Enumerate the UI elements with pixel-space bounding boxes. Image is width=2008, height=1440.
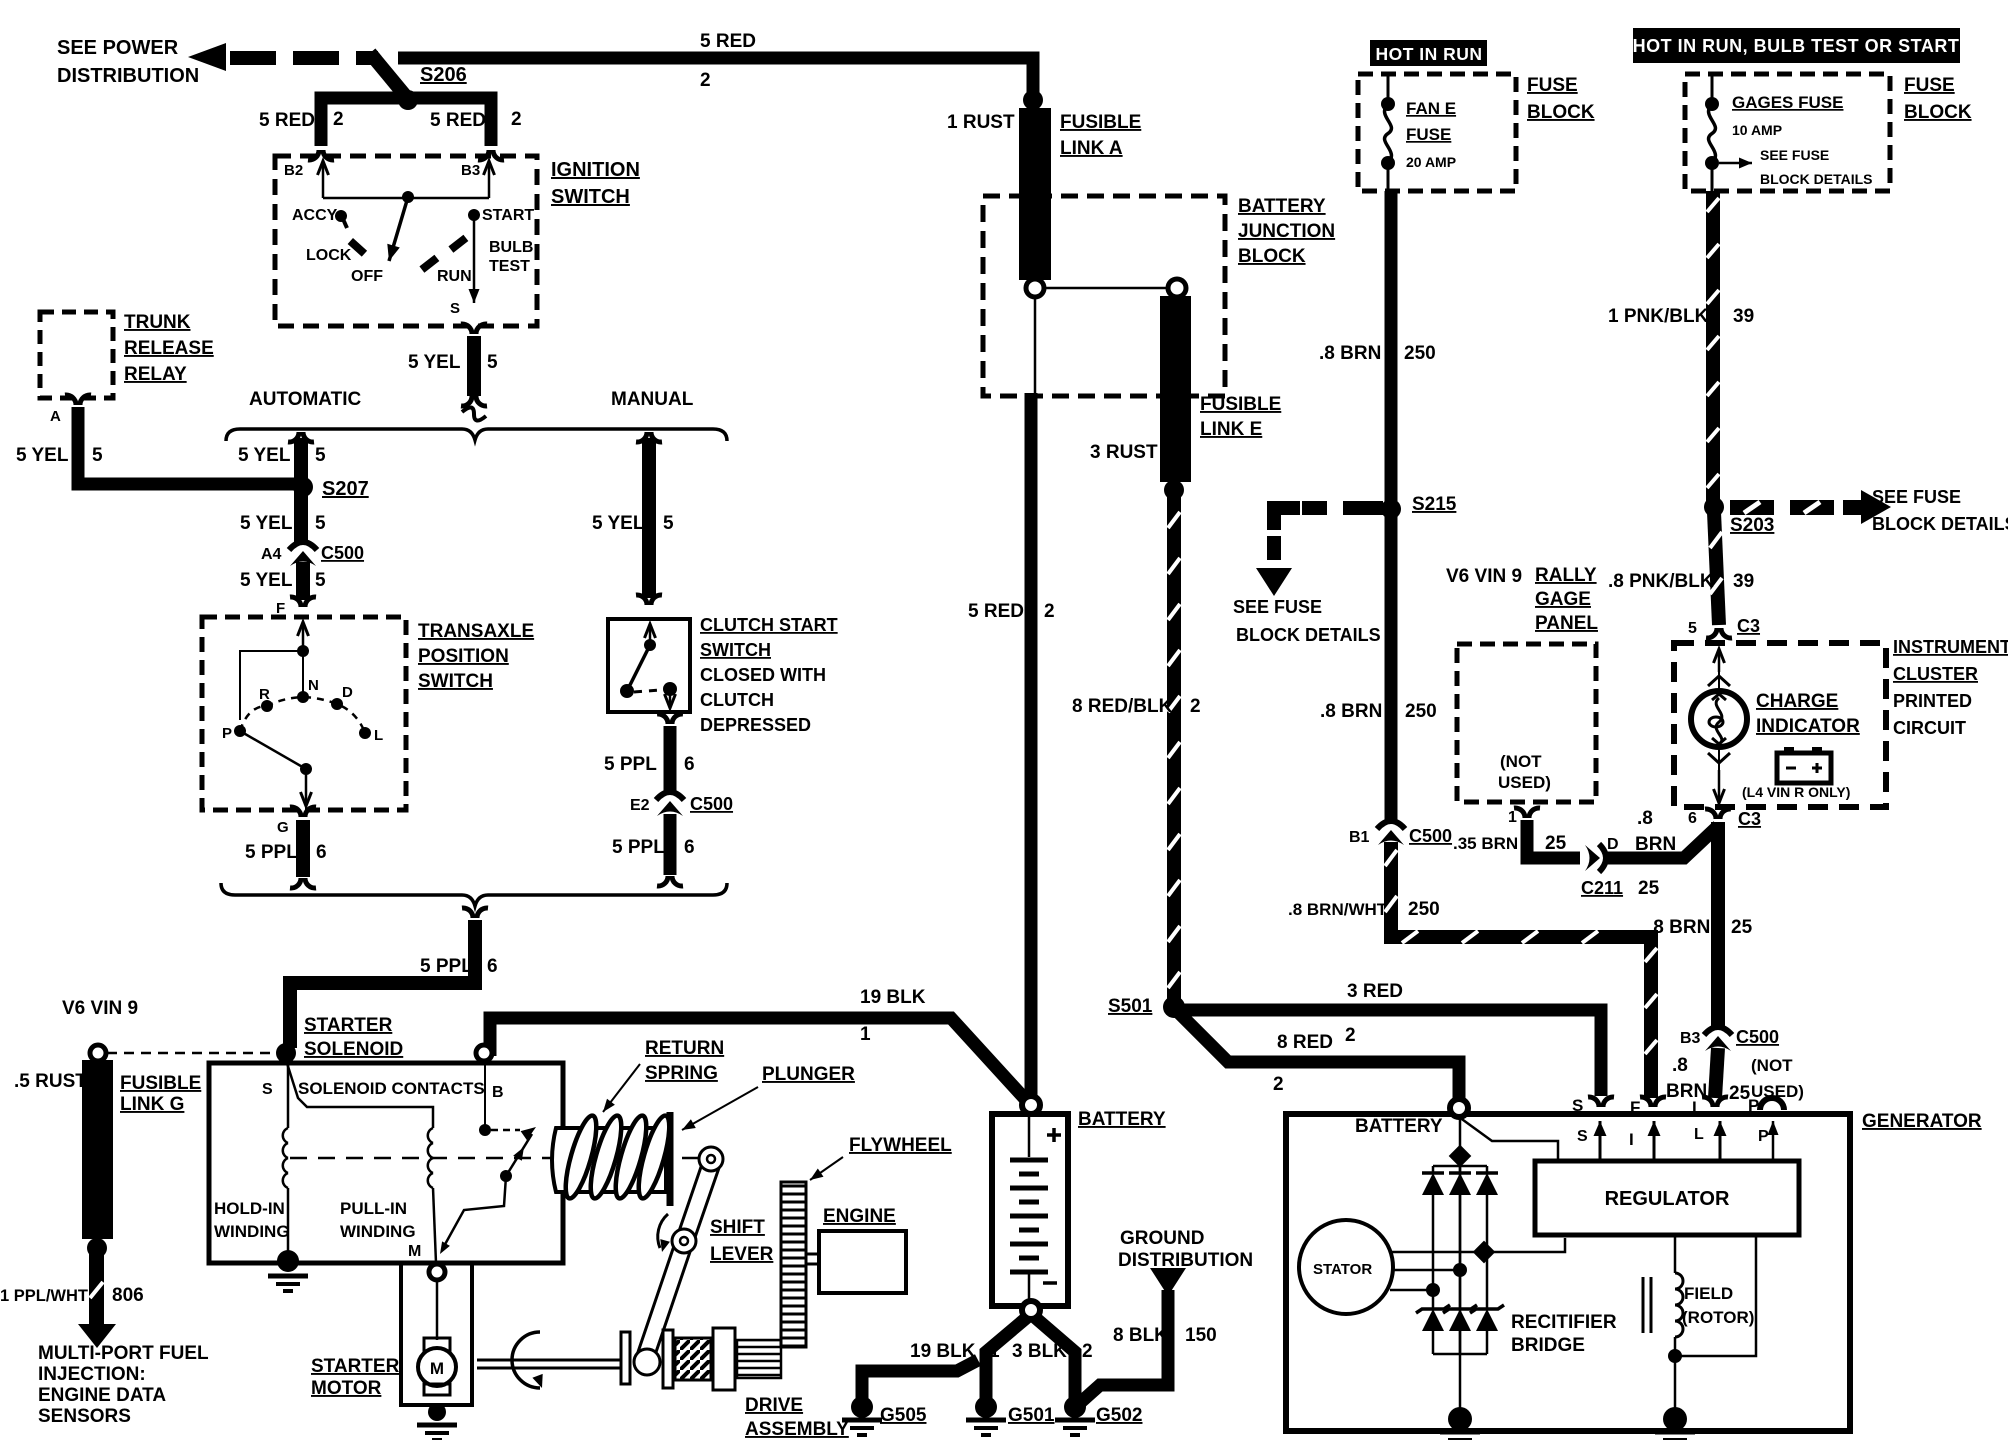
wire 5 RED top run to fusible link A (398, 58, 1033, 104)
break squiggle above brace (462, 407, 486, 420)
svg-text:GAGE: GAGE (1535, 589, 1591, 610)
banner HOT IN RUN (1370, 40, 1487, 66)
contact START (468, 209, 480, 221)
svg-text:BULB: BULB (489, 239, 533, 256)
wire 5 RED goalpost right to B3 (408, 98, 491, 146)
ground distribution feed arrow (1150, 1268, 1186, 1296)
wire 5 PPL below E2 (664, 814, 677, 875)
wire ground strap to G505 (862, 1360, 978, 1398)
svg-text:3 BLK: 3 BLK (1012, 1341, 1067, 1362)
ground G501 (975, 1396, 997, 1418)
ground generator field (1663, 1407, 1687, 1431)
svg-text:.8: .8 (1672, 1055, 1688, 1076)
svg-text:BRN: BRN (1635, 834, 1676, 855)
svg-text:BRIDGE: BRIDGE (1511, 1335, 1585, 1356)
wire .8 BRN pin6 to C500 B3 (1711, 822, 1725, 1026)
svg-text:PRINTED: PRINTED (1893, 691, 1972, 711)
svg-text:2: 2 (1345, 1025, 1356, 1046)
svg-text:HOT IN RUN, BULB TEST OR START: HOT IN RUN, BULB TEST OR START (1633, 36, 1960, 56)
svg-text:6: 6 (487, 956, 498, 977)
svg-text:START: START (482, 207, 534, 224)
svg-text:ENGINE: ENGINE (823, 1206, 896, 1227)
svg-text:SENSORS: SENSORS (38, 1406, 131, 1427)
svg-text:FUSIBLE: FUSIBLE (1200, 394, 1281, 415)
clutch output arrow (669, 694, 672, 708)
field rotor core bars (1643, 1277, 1651, 1333)
terminal fork manual branch top (636, 432, 647, 442)
svg-text:CHARGE: CHARGE (1756, 691, 1838, 712)
splice S203 (1704, 497, 1724, 517)
svg-text:S203: S203 (1730, 515, 1774, 536)
svg-text:STARTER: STARTER (311, 1356, 400, 1377)
svg-text:G501: G501 (1008, 1405, 1055, 1426)
contact R (261, 700, 273, 712)
svg-text:S: S (1572, 1096, 1583, 1115)
node fusible link E bottom (1164, 480, 1184, 500)
svg-text:B3: B3 (1680, 1030, 1701, 1047)
wire .8 BRN S215 to C500 B1 (1385, 512, 1398, 820)
svg-text:5: 5 (315, 570, 326, 591)
plunger end plate (667, 1112, 674, 1206)
svg-text:5 PPL: 5 PPL (420, 956, 473, 977)
field bottom node (1668, 1349, 1682, 1363)
svg-text:WINDING: WINDING (340, 1222, 416, 1241)
svg-text:LINK E: LINK E (1200, 419, 1262, 440)
svg-text:5: 5 (92, 445, 103, 466)
arrow to power distribution (dashed feed) (188, 43, 226, 71)
svg-text:20 AMP: 20 AMP (1406, 154, 1456, 170)
svg-text:BLOCK DETAILS: BLOCK DETAILS (1236, 625, 1381, 645)
svg-text:150: 150 (1185, 1325, 1217, 1346)
svg-text:(ROTOR): (ROTOR) (1682, 1308, 1754, 1327)
svg-text:G505: G505 (880, 1405, 927, 1426)
clutch fixed contact (644, 639, 656, 651)
fuse FAN E 20A (1387, 76, 1390, 104)
rectifier bottom bus (1433, 1353, 1487, 1356)
svg-text:BATTERY: BATTERY (1078, 1109, 1166, 1130)
svg-text:25: 25 (1545, 833, 1567, 854)
svg-text:SWITCH: SWITCH (551, 186, 630, 208)
clutch blade end (620, 684, 634, 698)
terminal fusible link E top (1168, 279, 1186, 297)
svg-text:2: 2 (1273, 1074, 1284, 1095)
svg-text:FAN E: FAN E (1406, 99, 1456, 118)
regulator box (1535, 1161, 1799, 1235)
svg-text:V6 VIN 9: V6 VIN 9 (1446, 566, 1522, 587)
contact ACCY (335, 210, 347, 222)
cluster entry arrow pin5 (1718, 649, 1721, 672)
terminal battery negative (1022, 1301, 1040, 1319)
svg-text:CLUTCH START: CLUTCH START (700, 615, 838, 635)
svg-text:SEE FUSE: SEE FUSE (1872, 487, 1961, 507)
flywheel pointer (810, 1157, 843, 1180)
svg-text:5 YEL: 5 YEL (408, 352, 461, 373)
terminal fork clutch exit (657, 714, 668, 724)
contact P (234, 725, 246, 737)
svg-text:5 PPL: 5 PPL (245, 842, 298, 863)
solenoid internal ground (277, 1250, 299, 1272)
shift lever arm (638, 1164, 720, 1358)
svg-text:5: 5 (315, 513, 326, 534)
fusible link G body (82, 1060, 113, 1239)
svg-text:LOCK: LOCK (306, 247, 352, 264)
svg-text:MOTOR: MOTOR (311, 1378, 382, 1399)
wire 1 PPL/WHT arrow to MFI (striped) (89, 1252, 104, 1326)
wire .35 BRN rally to C211 (1527, 820, 1580, 858)
charge indicator chevron top (1708, 676, 1730, 686)
svg-text:RALLY: RALLY (1535, 565, 1597, 586)
svg-text:CLUSTER: CLUSTER (1893, 664, 1978, 684)
charge indicator lamp (1691, 691, 1747, 747)
wire 8 RED S501 to generator BAT (1177, 1011, 1459, 1098)
starter solenoid box (209, 1063, 563, 1263)
svg-text:250: 250 (1404, 343, 1436, 364)
svg-text:5 RED: 5 RED (700, 31, 756, 52)
rally gage panel box (1457, 644, 1596, 802)
terminal fork generator L (1702, 1097, 1713, 1107)
terminal fork brace output (462, 908, 473, 918)
svg-text:S: S (1577, 1128, 1588, 1145)
motor feed line (436, 1280, 439, 1340)
dashed wire S215 to see-fuse arrow (1302, 501, 1383, 515)
ground generator rectifier (1448, 1407, 1472, 1431)
wire .8 BRN/WHT C500 to generator F (striped) (1391, 842, 1651, 1098)
svg-text:S: S (450, 300, 460, 317)
terminal arc generator P (not used) (1760, 1098, 1784, 1110)
svg-text:ASSEMBLY: ASSEMBLY (745, 1419, 849, 1440)
svg-text:FUSE: FUSE (1527, 75, 1578, 96)
drive shaft rotation arrow (512, 1332, 540, 1388)
wire 5 RED goalpost left to B2 (321, 98, 408, 146)
brace merge to starter solenoid (221, 883, 727, 906)
svg-text:S: S (262, 1081, 273, 1098)
svg-text:L: L (374, 727, 383, 744)
svg-text:PLUNGER: PLUNGER (762, 1064, 855, 1085)
svg-text:2: 2 (1044, 601, 1055, 622)
svg-text:5 YEL: 5 YEL (240, 570, 293, 591)
svg-text:25: 25 (1731, 917, 1753, 938)
svg-text:DISTRIBUTION: DISTRIBUTION (1118, 1250, 1253, 1271)
drive plate 2 (663, 1330, 673, 1388)
shift lever top pivot (699, 1147, 723, 1171)
plunger pointer (682, 1087, 758, 1130)
contact N (297, 691, 309, 703)
svg-text:PANEL: PANEL (1535, 613, 1598, 634)
connector C500 pin E2 (656, 792, 684, 800)
svg-text:.8 BRN: .8 BRN (1319, 343, 1381, 364)
connector C211 pin D (1585, 845, 1600, 871)
terminal fork S output bottom (461, 396, 472, 406)
terminal S (solenoid) (276, 1043, 296, 1063)
svg-text:.8: .8 (1637, 808, 1653, 829)
svg-text:PULL-IN: PULL-IN (340, 1199, 407, 1218)
svg-text:F: F (1630, 1098, 1640, 1117)
transaxle entry node (297, 645, 309, 657)
drive ball joint (634, 1349, 660, 1375)
junction block jumper (1043, 287, 1169, 290)
svg-text:D: D (1607, 836, 1619, 853)
svg-text:5 PPL: 5 PPL (612, 837, 665, 858)
wire 3 RED S501 to generator S (1180, 1010, 1601, 1096)
starter motor housing (401, 1263, 472, 1405)
node fusible link G bottom (87, 1238, 107, 1258)
contact ACCY tail (343, 219, 347, 228)
field rotor coil (1674, 1235, 1677, 1273)
splice S501 (1163, 996, 1185, 1018)
svg-text:C500: C500 (321, 543, 364, 563)
clutch switch blade (627, 645, 650, 691)
wire 5 RED feed diagonal into S206 (370, 53, 408, 99)
wire 5 PPL clutch to E2 (664, 726, 677, 792)
transaxle output arrow (305, 769, 308, 806)
svg-text:6: 6 (684, 754, 695, 775)
transaxle wiper lever (240, 731, 306, 769)
svg-text:I: I (1629, 1130, 1634, 1149)
ground G502 (1064, 1396, 1086, 1418)
svg-text:8 RED/BLK: 8 RED/BLK (1072, 696, 1173, 717)
transaxle wiper pivot (300, 763, 312, 775)
svg-text:8 BLK: 8 BLK (1113, 1325, 1168, 1346)
svg-text:39: 39 (1733, 571, 1754, 592)
ignition rotor pivot (402, 191, 414, 203)
svg-text:M: M (430, 1359, 444, 1378)
svg-text:5 YEL: 5 YEL (238, 445, 291, 466)
pull-in winding coil (428, 1128, 433, 1143)
svg-text:HOT IN RUN: HOT IN RUN (1375, 44, 1482, 64)
svg-text:INSTRUMENT: INSTRUMENT (1893, 637, 2008, 657)
brace AUTOMATIC/MANUAL split (226, 429, 727, 441)
svg-text:AUTOMATIC: AUTOMATIC (249, 389, 362, 410)
splice S207 (293, 477, 313, 497)
battery icon in cluster (1777, 753, 1831, 783)
svg-text:C3: C3 (1737, 616, 1760, 636)
regulator S input arrow (1599, 1121, 1602, 1161)
svg-text:C500: C500 (690, 794, 733, 814)
svg-text:TRUNK: TRUNK (124, 312, 191, 333)
svg-text:LINK A: LINK A (1060, 138, 1123, 159)
generator battery bus vertical (1459, 1117, 1462, 1410)
connector C500 pin B1 (1377, 821, 1405, 829)
wire .8 BRN C500 to generator L (1715, 1048, 1718, 1098)
wire 5 YEL automatic branch (294, 438, 308, 545)
svg-text:2: 2 (1082, 1341, 1093, 1362)
svg-text:5: 5 (487, 352, 498, 373)
svg-text:5 RED: 5 RED (430, 110, 486, 131)
svg-text:B3: B3 (461, 162, 480, 179)
svg-text:.8 BRN: .8 BRN (1648, 917, 1710, 938)
svg-text:SPRING: SPRING (645, 1063, 718, 1084)
rectifier zener diodes (1422, 1309, 1444, 1331)
dashed tap to starter S terminal (107, 1052, 278, 1055)
trunk release relay box (40, 312, 113, 398)
svg-text:USED): USED) (1498, 773, 1551, 792)
svg-text:OFF: OFF (351, 268, 383, 285)
svg-text:M: M (408, 1243, 421, 1260)
battery junction block box (983, 196, 1225, 396)
engine to flywheel link (806, 1254, 819, 1264)
terminal fork automatic branch top (288, 432, 299, 442)
svg-text:MULTI-PORT FUEL: MULTI-PORT FUEL (38, 1343, 209, 1364)
svg-text:CLOSED WITH: CLOSED WITH (700, 665, 826, 685)
clutch output contact (663, 682, 677, 696)
wire 5 PPL from G (296, 820, 310, 877)
battery plus sign (1047, 1128, 1061, 1142)
stator lead 2 node (1453, 1263, 1467, 1277)
svg-text:TRANSAXLE: TRANSAXLE (418, 621, 534, 642)
svg-text:(L4 VIN R ONLY): (L4 VIN R ONLY) (1742, 784, 1850, 800)
battery box (992, 1114, 1068, 1306)
svg-text:TEST: TEST (489, 258, 530, 275)
terminal fork C3 pin5 (1706, 628, 1717, 638)
terminal fork B2 wire end (308, 150, 319, 160)
return spring pointer (603, 1064, 640, 1112)
terminal fork B3 wire end (478, 150, 489, 160)
moving contact pivot (500, 1170, 512, 1182)
svg-text:2: 2 (333, 109, 344, 130)
svg-text:2: 2 (511, 109, 522, 130)
svg-text:3 RED: 3 RED (1347, 981, 1403, 1002)
transaxle contact arc (dashed) (240, 697, 365, 733)
motor brush top (424, 1338, 450, 1351)
svg-text:LEVER: LEVER (710, 1244, 774, 1265)
terminal M (motor) (429, 1264, 445, 1280)
detent tick LOCK (348, 238, 367, 257)
svg-text:RUN: RUN (437, 268, 472, 285)
rectifier top bus (1433, 1164, 1487, 1173)
svg-text:5 YEL: 5 YEL (16, 445, 69, 466)
svg-text:L: L (1692, 1098, 1702, 1117)
terminal fork clutch wire bottom (657, 876, 668, 886)
hold-in winding coil (283, 1128, 288, 1143)
svg-text:FUSIBLE: FUSIBLE (120, 1073, 201, 1094)
regulator L input arrow (1719, 1121, 1722, 1161)
svg-text:A: A (50, 408, 61, 425)
terminal fork F entry (290, 597, 301, 607)
regulator I input arrow (1653, 1121, 1656, 1161)
moving contact arm (506, 1134, 532, 1176)
terminal battery positive (1022, 1096, 1040, 1114)
svg-text:CLUTCH: CLUTCH (700, 690, 774, 710)
svg-text:G502: G502 (1096, 1405, 1142, 1426)
field ground lead (1674, 1356, 1677, 1410)
svg-text:(NOT: (NOT (1500, 752, 1542, 771)
transaxle entry link to P contact column (240, 651, 303, 720)
transaxle position switch box (202, 617, 406, 810)
generator battery terminal internal lead (1459, 1117, 1558, 1161)
svg-text:A4: A4 (261, 546, 282, 563)
svg-text:FUSE: FUSE (1904, 75, 1955, 96)
svg-text:10 AMP: 10 AMP (1732, 122, 1782, 138)
wire .8 PNK/BLK S203 to C3 pin 5 (striped) (1714, 512, 1719, 625)
generator box (1286, 1114, 1850, 1431)
svg-text:B2: B2 (284, 162, 303, 179)
terminal fork generator S (1588, 1097, 1599, 1107)
terminal fork relay A (65, 395, 76, 405)
svg-text:DRIVE: DRIVE (745, 1395, 803, 1416)
svg-text:BLOCK DETAILS: BLOCK DETAILS (1872, 514, 2008, 534)
svg-text:B1: B1 (1349, 829, 1370, 846)
fuse block box (fan fuse) (1358, 74, 1516, 191)
cluster exit arrow pin6 (1718, 770, 1721, 803)
detent tick BULB TEST (448, 235, 468, 253)
svg-text:6: 6 (684, 837, 695, 858)
svg-text:P: P (1758, 1128, 1769, 1145)
stator winding circle (1299, 1220, 1393, 1314)
ground starter motor (428, 1403, 446, 1421)
drive shaft (477, 1360, 622, 1368)
svg-text:6: 6 (316, 842, 327, 863)
ignition switch common bar (323, 197, 489, 200)
svg-text:5: 5 (1688, 620, 1697, 637)
svg-text:2: 2 (1190, 696, 1201, 717)
terminal fusible link A bottom (1026, 279, 1044, 297)
rectifier positive diodes (1422, 1173, 1444, 1195)
ignition rotor lever to OFF (389, 197, 408, 261)
svg-text:STARTER: STARTER (304, 1015, 393, 1036)
charge indicator chevron bottom (1708, 753, 1730, 763)
svg-text:.5 RUST: .5 RUST (14, 1071, 87, 1092)
drive hatched coupler (675, 1338, 711, 1380)
fusible link E body (1160, 296, 1191, 482)
transaxle N feed line (302, 651, 304, 697)
svg-text:RECITIFIER: RECITIFIER (1511, 1312, 1617, 1333)
svg-text:250: 250 (1408, 899, 1440, 920)
svg-text:BATTERY: BATTERY (1238, 196, 1326, 217)
svg-text:RETURN: RETURN (645, 1038, 724, 1059)
svg-text:MANUAL: MANUAL (611, 389, 694, 410)
svg-text:.8 BRN: .8 BRN (1320, 701, 1382, 722)
svg-text:C500: C500 (1409, 826, 1452, 846)
svg-text:RELAY: RELAY (124, 364, 187, 385)
svg-text:STATOR: STATOR (1313, 1261, 1372, 1278)
svg-text:SEE FUSE: SEE FUSE (1233, 597, 1322, 617)
svg-text:1 PNK/BLK: 1 PNK/BLK (1608, 306, 1709, 327)
contact arm from B (484, 1061, 486, 1130)
wire 5 YEL ignition S down (467, 336, 481, 396)
start contact feed to S (473, 215, 476, 303)
terminal fork generator F (1640, 1097, 1651, 1107)
charge indicator feed line (1718, 660, 1720, 800)
svg-text:250: 250 (1405, 701, 1437, 722)
svg-text:C3: C3 (1738, 809, 1761, 829)
junction block internal drop wire (1034, 297, 1037, 396)
svg-text:FUSE: FUSE (1406, 125, 1451, 144)
svg-text:19 BLK: 19 BLK (910, 1341, 976, 1362)
svg-text:BLOCK: BLOCK (1527, 102, 1595, 123)
gages fuse tap arrow (1719, 162, 1752, 165)
svg-text:ACCY: ACCY (292, 207, 338, 224)
svg-text:SEE FUSE: SEE FUSE (1760, 147, 1829, 163)
svg-text:5 PPL: 5 PPL (604, 754, 657, 775)
svg-text:.8 BRN/WHT: .8 BRN/WHT (1288, 900, 1388, 919)
stator phase lead 3 (1390, 1289, 1433, 1292)
svg-text:.8 PNK/BLK: .8 PNK/BLK (1608, 571, 1714, 592)
svg-text:D: D (342, 684, 353, 701)
terminal fork clutch switch entry (636, 595, 647, 605)
striped dashed arrow S203 to fuse block details (1730, 500, 1774, 515)
svg-text:SEE POWER: SEE POWER (57, 37, 179, 59)
svg-text:LINK G: LINK G (120, 1094, 184, 1115)
svg-text:S206: S206 (420, 64, 467, 86)
connector C500 pin B3 (1704, 1027, 1732, 1035)
svg-text:S215: S215 (1412, 494, 1457, 515)
svg-text:(NOT: (NOT (1751, 1056, 1793, 1075)
svg-text:5 YEL: 5 YEL (592, 513, 645, 534)
svg-text:FUSIBLE: FUSIBLE (1060, 112, 1141, 133)
svg-text:2: 2 (700, 70, 711, 91)
wire 19 BLK battery to solenoid B (490, 1018, 1025, 1099)
return spring coils (560, 1113, 603, 1201)
